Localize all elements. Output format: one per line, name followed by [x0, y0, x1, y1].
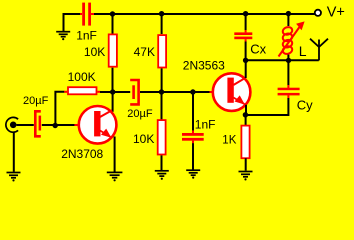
wire Q2 emitter down — [245, 105, 247, 115]
wire Cy top stem — [287, 60, 289, 85]
svg-text:20µF: 20µF — [127, 108, 153, 120]
junction dot node D2 — [286, 58, 291, 63]
wire row D collector node — [246, 59, 319, 61]
capacitor C3 20uF bracket — [130, 80, 138, 104]
junction dot node B3 — [190, 89, 195, 94]
svg-text:10K: 10K — [84, 45, 105, 59]
svg-text:47K: 47K — [134, 45, 155, 59]
svg-text:Cx: Cx — [250, 42, 266, 57]
capacitor Cx red stubs — [245, 30, 247, 42]
svg-text:L: L — [299, 43, 307, 59]
wire Q2 base red stub — [210, 91, 214, 93]
wire 47K R2 top stem — [161, 14, 163, 34]
svg-text:V+: V+ — [327, 5, 345, 21]
wire Q1 base red stub — [74, 124, 78, 126]
wire Q1 collector — [112, 92, 114, 112]
input jack — [6, 117, 18, 132]
wire C4 bottom stem — [192, 143, 194, 170]
capacitor Cx plates — [234, 32, 252, 39]
wire R3 bottom stem — [161, 155, 163, 170]
wire R5 top stem — [245, 115, 247, 126]
wire R3 top stem — [161, 92, 163, 120]
svg-text:2N3563: 2N3563 — [183, 59, 225, 73]
svg-text:100K: 100K — [68, 70, 96, 84]
capacitor C3 20uF plate — [132, 85, 135, 99]
junction dot node C — [53, 123, 58, 128]
capacitor Cy lead stubs — [287, 85, 289, 98]
ground under C4 — [186, 170, 200, 179]
junction dot node D1 — [243, 58, 248, 63]
ground under Q1 — [107, 172, 123, 181]
capacitor C2 20uF bracket — [35, 111, 41, 136]
capacitor C4 lead stubs — [192, 130, 194, 143]
svg-text:10K: 10K — [133, 132, 154, 146]
wire jack to C2 — [17, 124, 34, 126]
transistor Q2 2N3563 — [213, 73, 251, 111]
inductor L coil — [282, 26, 293, 55]
wire R4 right lead to node — [100, 91, 130, 93]
resistor R1 10K — [109, 34, 117, 66]
resistor R4 lead stubs — [64, 91, 100, 93]
svg-text:1nF: 1nF — [195, 117, 216, 131]
wire Cx bottom stem — [245, 42, 247, 61]
capacitor C2 20uF plate — [39, 116, 42, 131]
capacitor C1 1nF plates — [82, 3, 91, 26]
wire Cx top stem — [245, 14, 247, 30]
ground under R5 — [239, 172, 253, 181]
junction dot rail 2 — [159, 11, 164, 16]
wire Q1 emitter down — [114, 137, 116, 173]
junction dot node B2 — [159, 89, 164, 94]
wire R1 bottom stem — [112, 68, 114, 92]
capacitor C1 red lead stubs — [80, 13, 94, 15]
svg-text:1K: 1K — [222, 135, 236, 147]
wire top rail left segment — [64, 13, 81, 15]
wire Cy bottom stem and row E — [245, 98, 288, 115]
wire C3 to node B2 — [140, 91, 210, 93]
junction dot rail 3 — [243, 11, 248, 16]
ground under jack — [7, 173, 21, 182]
svg-text:20µF: 20µF — [23, 95, 49, 107]
capacitor Cy plates — [278, 88, 300, 96]
inductor tuning arrow — [279, 21, 305, 56]
wire top rail right segment — [93, 13, 315, 15]
wire 10K R1 top stem — [112, 14, 114, 34]
wire left drop to ground — [63, 13, 65, 31]
wire R5 bottom stem — [245, 158, 247, 170]
wire L bottom stem — [287, 55, 289, 61]
resistor R3 10K — [158, 120, 166, 154]
terminal V+ circle — [315, 10, 321, 16]
ground under R3 — [155, 171, 169, 180]
wire jack ground tail — [13, 132, 15, 172]
junction dot node B1 — [110, 89, 115, 94]
wire C2 to Q1 base — [42, 124, 75, 126]
wire C4 top stem — [192, 92, 194, 131]
wire L top stem — [287, 14, 289, 26]
antenna — [310, 39, 328, 61]
wire R2 bottom stem — [161, 68, 163, 92]
ground (top left) — [56, 32, 70, 41]
resistor R4 100K — [68, 87, 97, 94]
resistor R5 1K — [241, 126, 249, 159]
svg-text:2N3708: 2N3708 — [61, 147, 103, 161]
capacitor C4 1nF plates — [182, 133, 204, 141]
wire Q2 collector up — [245, 60, 247, 78]
wire row B: 100K corner drop — [55, 92, 64, 126]
junction dot rail 1 — [110, 11, 115, 16]
junction dot node E — [243, 112, 248, 117]
resistor R2 47K — [158, 35, 166, 67]
svg-text:1nF: 1nF — [76, 28, 97, 42]
transistor Q1 2N3708 — [79, 106, 117, 144]
junction dot rail 4 — [286, 11, 291, 16]
svg-text:Cy: Cy — [297, 98, 313, 113]
